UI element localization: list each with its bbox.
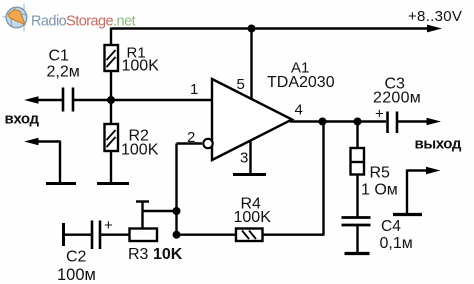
svg-text:C4: C4 <box>381 218 401 235</box>
ground C4 <box>345 252 370 255</box>
ground input <box>46 182 76 185</box>
wire R4 to node <box>177 233 237 235</box>
capacitor C4 <box>342 218 371 226</box>
wire pin2 down to feedback node <box>175 144 177 235</box>
svg-text:C2: C2 <box>66 249 87 266</box>
op-amp A1 triangle <box>212 79 292 160</box>
wire rail to R1 <box>110 28 112 46</box>
ground C2 (vertical bar) <box>62 223 65 246</box>
svg-text:2200м: 2200м <box>373 90 421 107</box>
feedback wire from output node down to R4 <box>322 122 324 235</box>
resistor R3 <box>130 229 158 242</box>
svg-text:C1: C1 <box>49 48 70 65</box>
node output 2 <box>354 118 362 126</box>
wire to R5 <box>356 122 358 149</box>
ground R2 <box>97 182 129 185</box>
svg-text:4: 4 <box>295 102 303 119</box>
wire pin 2 <box>177 142 203 144</box>
logo RadioStorage.net icon <box>3 4 27 32</box>
svg-text:100K: 100K <box>122 58 160 75</box>
input arrow <box>24 96 62 104</box>
wire R5 to C4 <box>356 175 358 218</box>
svg-text:R3: R3 <box>128 246 149 263</box>
resistor R1 <box>105 45 119 71</box>
wire node to R2 <box>110 100 112 124</box>
wire R1 to node <box>110 71 112 100</box>
svg-text:выход: выход <box>415 136 462 153</box>
svg-text:+8..30V: +8..30V <box>408 8 462 25</box>
wire C4 to ground <box>356 225 358 253</box>
svg-text:100K: 100K <box>121 142 159 159</box>
svg-text:2,2м: 2,2м <box>47 64 80 81</box>
input ground arrow <box>24 138 60 183</box>
svg-text:R5: R5 <box>370 165 391 182</box>
wire pin 5 <box>250 29 252 100</box>
resistor R2 <box>105 124 119 151</box>
wire C3 to out arrow <box>398 120 430 122</box>
pin 2 inverting circle <box>203 139 212 148</box>
output wire pin 4 <box>290 120 386 122</box>
trimmer wiper branch <box>136 202 177 229</box>
wire pin 1 <box>111 99 212 101</box>
node feedback lower <box>173 231 181 239</box>
svg-text:1: 1 <box>190 81 198 98</box>
capacitor C2 <box>92 217 113 249</box>
svg-text:+: + <box>104 217 113 234</box>
svg-text:вход: вход <box>5 111 40 128</box>
svg-text:5: 5 <box>237 76 245 93</box>
node output 1 <box>319 118 327 126</box>
svg-text:3: 3 <box>240 150 248 167</box>
junction dot (power to pin 5) <box>248 25 256 33</box>
wire R2 to ground <box>110 151 112 183</box>
node input <box>107 96 115 104</box>
svg-text:RadioStorage.net: RadioStorage.net <box>31 14 136 30</box>
wire C2 to ground <box>64 233 92 235</box>
svg-text:10K: 10K <box>153 246 183 263</box>
svg-text:0,1м: 0,1м <box>380 235 413 252</box>
wire C1 to node <box>74 99 112 101</box>
node feedback upper <box>173 207 181 215</box>
wire R3 left to C2 <box>101 233 130 235</box>
svg-text:TDA2030: TDA2030 <box>267 74 335 91</box>
output ground terminal arrow <box>407 167 441 214</box>
resistor R5 <box>351 148 365 175</box>
ground output terminal <box>393 213 422 216</box>
capacitor C1 <box>63 88 73 112</box>
resistor R4 <box>236 229 263 242</box>
svg-text:1 Ом: 1 Ом <box>361 182 398 199</box>
svg-text:+: + <box>375 106 384 123</box>
svg-text:100м: 100м <box>57 266 96 284</box>
ground pin 3 <box>233 173 266 176</box>
capacitor C3 <box>375 106 397 134</box>
wire pin 3 <box>249 141 251 175</box>
power rail +8..30V <box>111 27 430 29</box>
svg-text:2: 2 <box>187 129 195 146</box>
svg-text:100K: 100K <box>234 209 272 226</box>
